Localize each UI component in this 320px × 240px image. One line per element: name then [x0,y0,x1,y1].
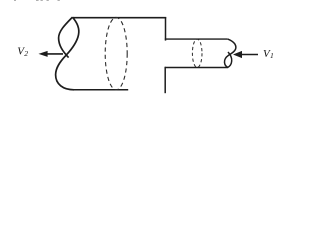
svg-text:2: 2 [24,49,28,58]
svg-text:1: 1 [270,51,274,60]
